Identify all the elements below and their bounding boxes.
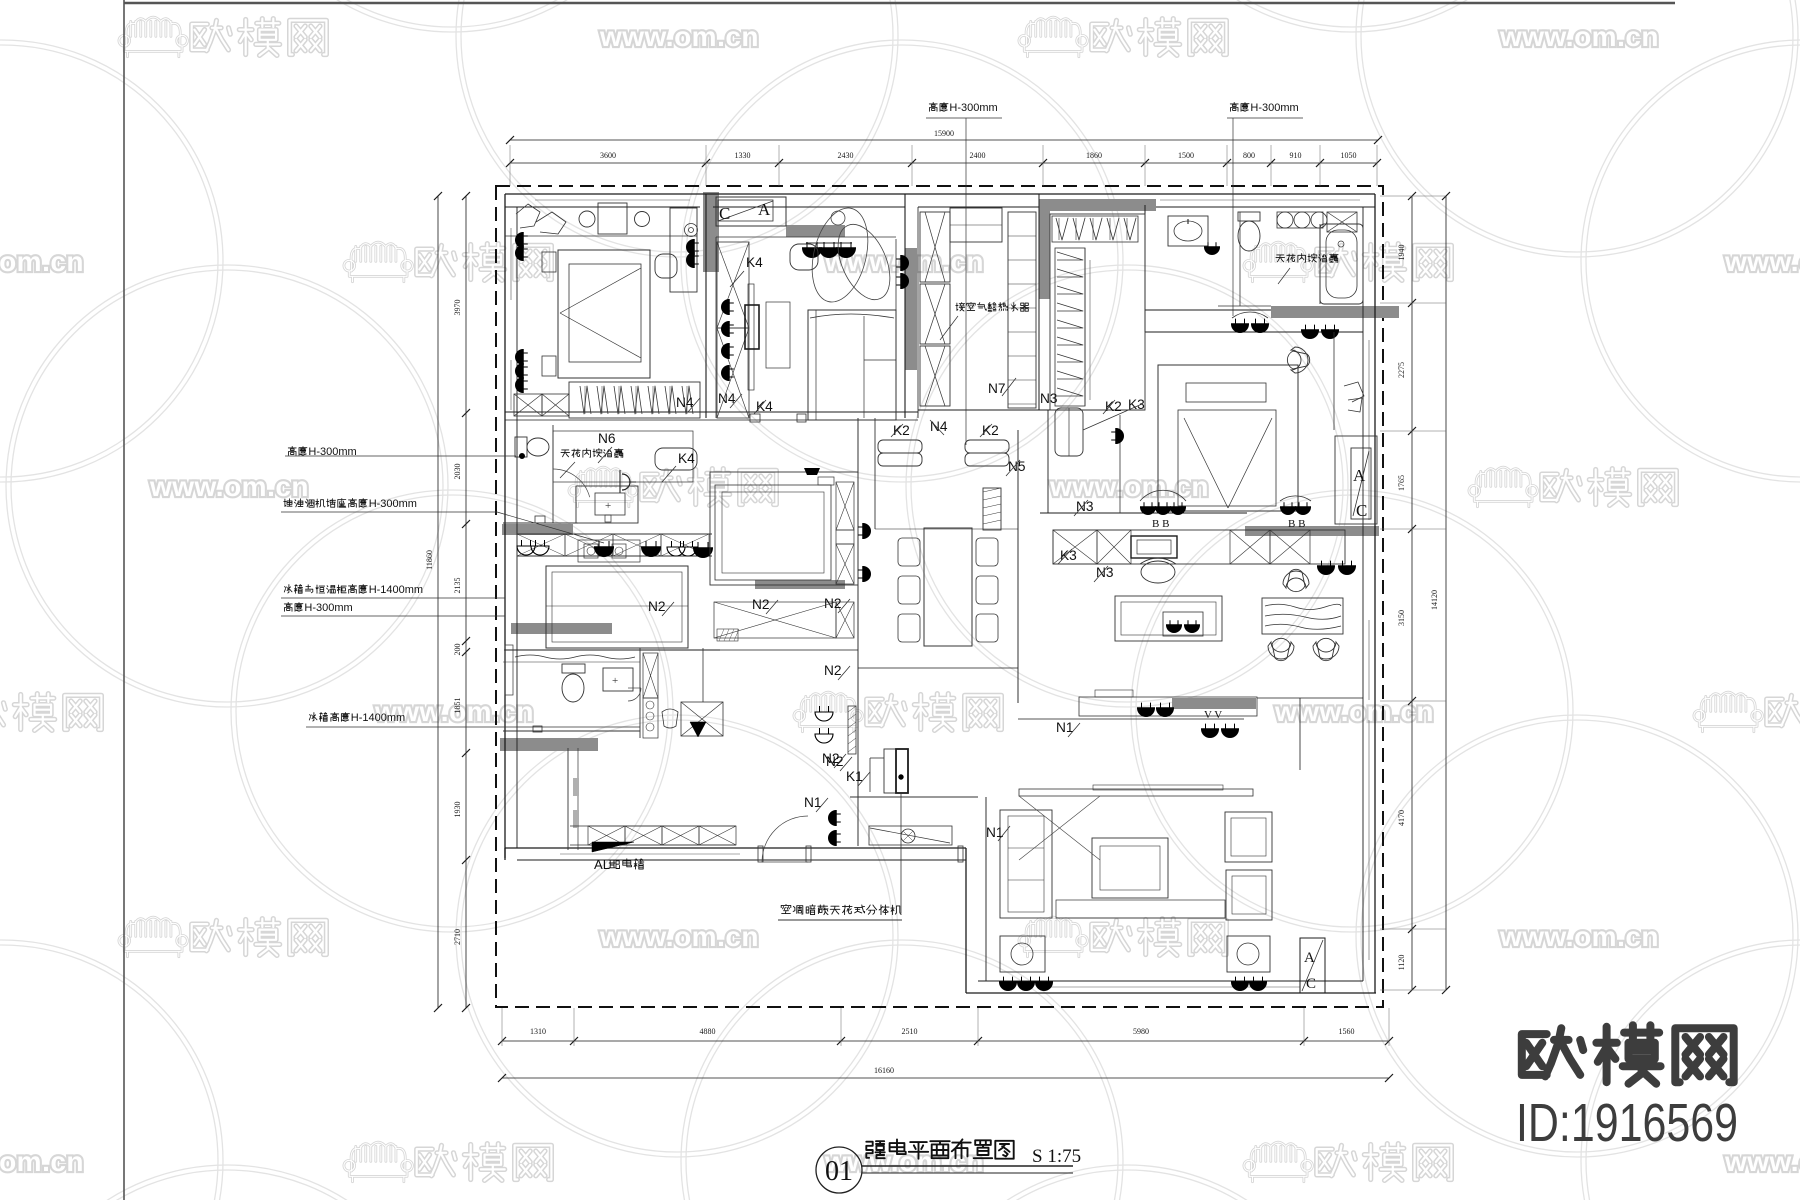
- svg-text:K4: K4: [746, 255, 763, 270]
- svg-text:16160: 16160: [874, 1066, 894, 1075]
- svg-text:www.om.cn: www.om.cn: [1724, 246, 1800, 277]
- svg-text:2030: 2030: [453, 464, 462, 480]
- svg-text:+: +: [605, 500, 611, 512]
- svg-text:2510: 2510: [902, 1027, 918, 1036]
- svg-text:K3: K3: [1128, 397, 1145, 412]
- svg-text:1860: 1860: [1086, 151, 1102, 160]
- svg-text:1050: 1050: [1341, 151, 1357, 160]
- top dimension lines and values: [510, 139, 1378, 141]
- svg-text:www.om.cn: www.om.cn: [1274, 696, 1434, 727]
- pantry room and cabinets: [710, 472, 858, 585]
- walk-in closet with hanger racks: [1050, 214, 1145, 410]
- master bedroom: bed, dresser, A/C niche: [1158, 365, 1298, 511]
- left height labels with leaders: [288, 446, 296, 455]
- svg-text:1940: 1940: [1397, 245, 1406, 261]
- svg-text:4880: 4880: [700, 1027, 716, 1036]
- svg-text:N7: N7: [988, 381, 1006, 396]
- svg-text:N6: N6: [598, 431, 616, 446]
- site logo and ID text: [1522, 1028, 1583, 1076]
- svg-text:910: 910: [1290, 151, 1302, 160]
- svg-text:1500: 1500: [1178, 151, 1194, 160]
- svg-text:3970: 3970: [453, 300, 462, 316]
- svg-text:H-1400mm: H-1400mm: [351, 712, 405, 724]
- svg-text:4170: 4170: [1397, 810, 1406, 826]
- svg-text:800: 800: [1243, 151, 1255, 160]
- svg-text:2710: 2710: [453, 929, 462, 945]
- top height labels with leaders: [929, 102, 937, 111]
- outer walls: [505, 193, 1375, 195]
- guest bath and corridor cabinets: [515, 655, 635, 659]
- svg-text:14120: 14120: [1430, 590, 1439, 610]
- left dimension column: [465, 196, 467, 1008]
- gray filled wall segments: [703, 192, 719, 272]
- svg-text:N2: N2: [824, 663, 842, 678]
- svg-text:1120: 1120: [1397, 955, 1406, 971]
- svg-text:3600: 3600: [600, 151, 616, 160]
- svg-text:K4: K4: [678, 451, 695, 466]
- svg-text:H-1400mm: H-1400mm: [369, 584, 423, 596]
- svg-text:www.om.cn: www.om.cn: [599, 921, 759, 952]
- svg-text:H-300mm: H-300mm: [1250, 102, 1298, 114]
- master bathroom: sink, toilet, tub, lamps: [1168, 216, 1208, 246]
- internal walls: [705, 194, 707, 418]
- page frame lines: [123, 0, 125, 1200]
- svg-text:11860: 11860: [425, 550, 434, 570]
- svg-text:www.om.cn: www.om.cn: [1499, 21, 1659, 52]
- svg-text:2430: 2430: [838, 151, 854, 160]
- svg-text:C: C: [1306, 976, 1316, 992]
- svg-text:2135: 2135: [453, 578, 462, 594]
- svg-text:N2: N2: [824, 596, 842, 611]
- svg-text:1560: 1560: [1339, 1027, 1355, 1036]
- svg-text:AL: AL: [594, 857, 610, 872]
- svg-text:A: A: [758, 200, 771, 219]
- svg-text:N3: N3: [1040, 391, 1058, 406]
- svg-text:www.om.cn: www.om.cn: [0, 246, 84, 277]
- svg-text:www.om.cn: www.om.cn: [1049, 471, 1209, 502]
- svg-text:N3: N3: [1076, 499, 1094, 514]
- bedroom A: furniture, bed, wardrobe, wall lamps: [505, 235, 697, 237]
- living room: shelf, sofa set, tables, A/C: [1079, 697, 1257, 716]
- svg-text:H-300mm: H-300mm: [949, 102, 997, 114]
- right dimension column: [1411, 196, 1413, 990]
- svg-text:N3: N3: [1096, 565, 1114, 580]
- svg-text:H-300mm: H-300mm: [304, 602, 352, 614]
- svg-text:S 1:75: S 1:75: [1032, 1146, 1081, 1167]
- svg-text:1851: 1851: [453, 698, 462, 714]
- svg-text:C: C: [719, 204, 730, 223]
- bedroom B: C/A box, wardrobe, bed, lamps: [716, 197, 786, 226]
- svg-text:C: C: [1356, 501, 1367, 520]
- svg-text:N2: N2: [822, 751, 840, 766]
- utility zone: air-energy water heater cabinets: [920, 212, 950, 282]
- svg-text:B B: B B: [1288, 518, 1305, 530]
- svg-text:K3: K3: [1060, 548, 1077, 563]
- svg-text:1930: 1930: [453, 802, 462, 818]
- svg-text:200: 200: [453, 644, 462, 656]
- dashed site boundary: [496, 186, 1383, 1007]
- svg-text:N5: N5: [1008, 459, 1026, 474]
- watermark layer: om.cn logos, urls, circles: [231, 0, 673, 32]
- bottom dimension lines and values: [502, 1040, 1389, 1042]
- svg-text:N1: N1: [804, 795, 822, 810]
- title block: 01 circle, title, scale: [816, 1147, 862, 1193]
- dining table, chairs, K2 units, N labels: [924, 528, 972, 646]
- svg-text:2275: 2275: [1397, 362, 1406, 378]
- svg-text:www.om.cn: www.om.cn: [0, 1146, 84, 1177]
- svg-text:1330: 1330: [735, 151, 751, 160]
- svg-text:A: A: [1304, 950, 1315, 966]
- svg-text:N2: N2: [752, 597, 770, 612]
- svg-text:+: +: [612, 675, 618, 687]
- kitchen: WC, counter, stove, island: [552, 425, 554, 523]
- svg-text:B B: B B: [1152, 518, 1169, 530]
- svg-text:01: 01: [825, 1156, 853, 1187]
- svg-text:K1: K1: [846, 769, 863, 784]
- svg-text:1310: 1310: [530, 1027, 546, 1036]
- svg-text:www.om.cn: www.om.cn: [149, 471, 309, 502]
- svg-text:N2: N2: [648, 599, 666, 614]
- svg-text:V V: V V: [1204, 709, 1222, 721]
- svg-text:N1: N1: [1056, 720, 1074, 735]
- svg-text:2400: 2400: [970, 151, 986, 160]
- svg-text:3150: 3150: [1397, 610, 1406, 626]
- svg-text:5980: 5980: [1133, 1027, 1149, 1036]
- svg-text:15900: 15900: [934, 129, 954, 138]
- svg-text:N4: N4: [930, 419, 948, 434]
- svg-text:www.om.cn: www.om.cn: [599, 21, 759, 52]
- svg-text:www.om.cn: www.om.cn: [1499, 921, 1659, 952]
- svg-text:ID:1916569: ID:1916569: [1516, 1093, 1738, 1153]
- svg-text:1765: 1765: [1397, 475, 1406, 491]
- svg-text:H-300mm: H-300mm: [369, 498, 417, 510]
- svg-text:A: A: [1353, 466, 1366, 485]
